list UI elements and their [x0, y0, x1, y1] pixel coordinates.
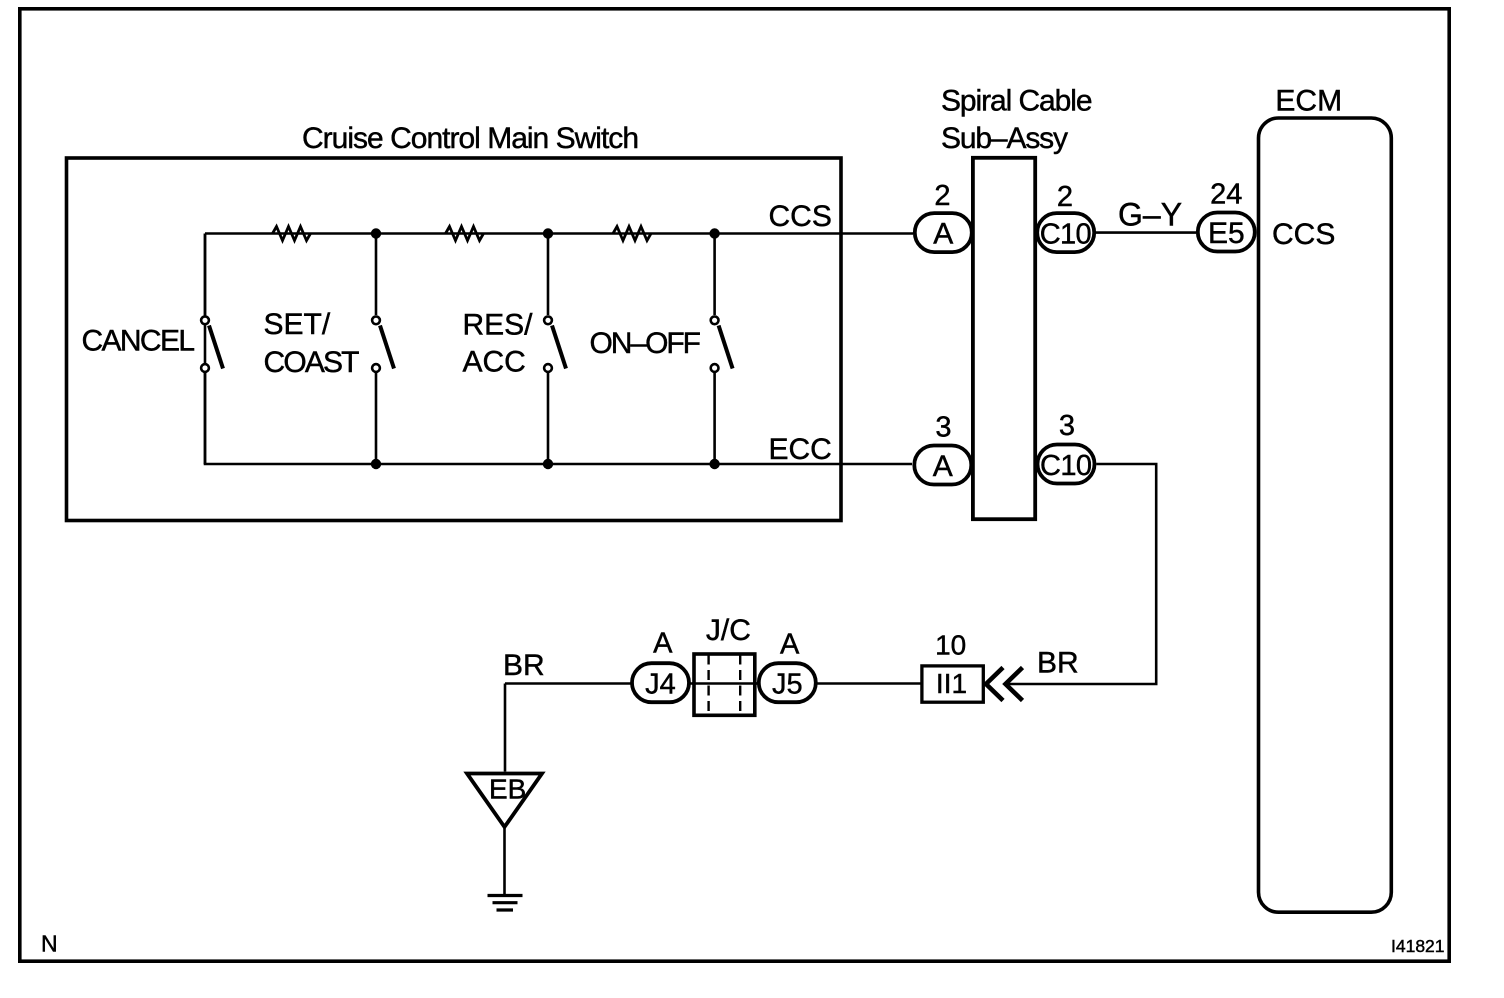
svg-text:BR: BR [503, 649, 545, 682]
svg-text:J5: J5 [772, 669, 803, 701]
wire BR bottom run [505, 682, 923, 685]
svg-text:J/C: J/C [706, 614, 751, 647]
svg-text:SET/: SET/ [264, 308, 331, 341]
svg-text:C10: C10 [1040, 450, 1092, 482]
connector A pin 2 [915, 213, 972, 252]
svg-text:A: A [933, 450, 953, 483]
ground symbol [488, 896, 523, 911]
svg-text:ACC: ACC [463, 346, 526, 379]
connector arrow chevron 1 [986, 668, 1003, 701]
svg-text:ECM: ECM [1275, 85, 1342, 118]
svg-text:A: A [933, 218, 953, 251]
wire through J/C [692, 682, 757, 685]
cruise control main switch box [67, 158, 842, 521]
svg-text:J4: J4 [645, 669, 676, 701]
node top junction 2 [543, 228, 553, 238]
wire CCS top rail [205, 232, 913, 235]
connector arrow chevron 2 [1006, 668, 1023, 701]
wire left rail [204, 234, 207, 465]
wire to EB ground [504, 684, 507, 772]
junction connector J/C box [694, 654, 755, 715]
connector E5 pin 24 [1198, 213, 1255, 252]
svg-text:Cruise Control Main Switch: Cruise Control Main Switch [302, 122, 639, 155]
svg-text:N: N [41, 930, 58, 956]
svg-text:I41821: I41821 [1391, 936, 1445, 956]
wire G-Y [1096, 231, 1196, 234]
wire EB to ground [503, 826, 506, 894]
switch SET/COAST [372, 234, 394, 465]
svg-text:CANCEL: CANCEL [82, 325, 196, 358]
svg-text:A: A [653, 628, 673, 660]
connector II1 [922, 666, 983, 702]
spiral cable sub-assy box [973, 158, 1035, 519]
svg-text:A: A [780, 629, 800, 661]
svg-text:3: 3 [1059, 410, 1075, 442]
ECM box [1259, 118, 1392, 912]
switch ON-OFF [711, 234, 733, 465]
svg-text:CCS: CCS [769, 200, 832, 233]
svg-text:EB: EB [489, 774, 526, 805]
svg-text:CCS: CCS [1272, 218, 1335, 251]
switch CANCEL [201, 234, 223, 465]
switch RES/ACC [544, 234, 566, 465]
svg-text:Spiral Cable: Spiral Cable [941, 85, 1093, 118]
svg-text:G–Y: G–Y [1118, 197, 1182, 233]
node top junction 3 [709, 228, 719, 238]
svg-text:RES/: RES/ [463, 309, 534, 342]
node bottom junction 2 [543, 459, 553, 469]
svg-text:C10: C10 [1040, 219, 1092, 251]
resistor R2 [446, 227, 484, 241]
svg-text:E5: E5 [1208, 217, 1245, 250]
svg-text:COAST: COAST [264, 346, 360, 379]
connector C10 pin 2 [1037, 213, 1094, 252]
svg-text:ECC: ECC [769, 433, 832, 466]
svg-text:2: 2 [934, 180, 950, 212]
svg-text:24: 24 [1210, 179, 1242, 211]
node bottom junction 1 [371, 459, 381, 469]
wire from C10 pin 3 to II1 [1006, 464, 1157, 684]
connector A pin 3 [914, 446, 971, 485]
node top junction 1 [371, 228, 381, 238]
svg-text:BR: BR [1037, 647, 1079, 680]
wire ECC bottom rail [204, 463, 912, 466]
svg-text:Sub–Assy: Sub–Assy [941, 122, 1068, 155]
resistor R1 [273, 227, 311, 241]
connector J5 [759, 663, 816, 702]
node bottom junction 3 [709, 459, 719, 469]
svg-text:10: 10 [935, 629, 966, 660]
ground EB triangle [467, 774, 542, 828]
connector C10 pin 3 [1038, 445, 1095, 484]
svg-text:ON–OFF: ON–OFF [590, 327, 702, 360]
svg-text:II1: II1 [936, 668, 967, 699]
svg-text:2: 2 [1057, 181, 1073, 213]
resistor R3 [613, 227, 651, 241]
svg-text:3: 3 [935, 412, 951, 444]
connector J4 [632, 663, 689, 702]
